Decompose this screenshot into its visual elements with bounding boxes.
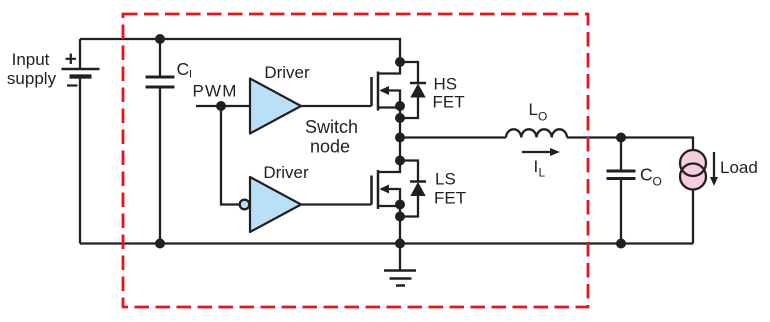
svg-text:FET: FET xyxy=(433,93,465,112)
label CO xyxy=(640,165,662,189)
node switch node junction xyxy=(395,133,405,143)
node HS diode anode junction xyxy=(395,113,405,123)
label Switch node xyxy=(305,117,358,157)
svg-text:Driver: Driver xyxy=(263,163,309,182)
label + (battery positive) xyxy=(66,54,77,65)
capacitor CO xyxy=(607,171,636,179)
svg-text:Driver: Driver xyxy=(264,63,310,82)
inverting bubble on driver 2 input xyxy=(240,200,250,210)
label CI xyxy=(177,59,193,81)
diode D1 HS body diode xyxy=(400,62,426,118)
load current source xyxy=(680,150,706,190)
svg-text:O: O xyxy=(653,175,662,189)
wire battery positive to top rail xyxy=(79,39,81,69)
label Input supply xyxy=(7,50,57,88)
svg-text:C: C xyxy=(640,165,653,185)
wire battery negative to bottom rail xyxy=(79,77,81,244)
svg-text:L: L xyxy=(539,166,546,180)
svg-text:O: O xyxy=(538,110,547,124)
wire CO bottom xyxy=(620,179,622,244)
op-amp driver U1 (high-side driver) xyxy=(250,79,301,134)
wire driver 1 output to HS gate xyxy=(301,105,372,107)
label Driver (top) xyxy=(264,63,310,82)
svg-text:Input: Input xyxy=(12,50,50,69)
wire PWM input stub to driver 1 xyxy=(196,105,250,107)
label PWM xyxy=(193,82,238,101)
svg-text:node: node xyxy=(310,137,350,157)
label LS FET xyxy=(434,170,466,208)
svg-text:I: I xyxy=(189,69,192,81)
diode D2 LS body diode xyxy=(400,161,426,217)
node CO bottom junction xyxy=(616,239,626,249)
capacitor CI xyxy=(146,77,175,87)
op-amp driver U2 (low-side driver) xyxy=(250,177,301,232)
node PWM junction xyxy=(216,101,226,111)
wire CI bottom xyxy=(159,87,161,244)
svg-text:FET: FET xyxy=(434,189,466,208)
transistor Q2 LS FET xyxy=(372,161,401,210)
battery V1 input supply xyxy=(62,69,100,77)
ground xyxy=(384,244,416,286)
node LS source junction xyxy=(395,200,405,210)
node HS drain junction xyxy=(395,57,405,67)
arrow load current xyxy=(710,152,718,186)
node CI bottom rail junction xyxy=(155,239,165,249)
node ground rail junction xyxy=(395,239,405,249)
wire top rail from battery to HS FET drain xyxy=(80,39,400,62)
label LO xyxy=(529,100,548,124)
label - (battery negative) xyxy=(67,84,78,86)
label HS FET xyxy=(433,75,465,112)
svg-text:LS: LS xyxy=(435,170,456,189)
label Driver (bottom) xyxy=(263,163,309,182)
wire load bottom to ground rail xyxy=(692,190,694,244)
node CO top junction xyxy=(616,133,626,143)
svg-text:Switch: Switch xyxy=(305,117,358,137)
wire CO node to load xyxy=(621,138,693,151)
svg-text:PWM: PWM xyxy=(193,82,238,101)
wire driver 2 output to LS gate xyxy=(301,203,372,205)
svg-text:HS: HS xyxy=(434,75,458,94)
svg-text:supply: supply xyxy=(7,69,57,88)
node LS drain junction xyxy=(395,156,405,166)
node CI top rail junction xyxy=(155,34,165,44)
wire PWM to driver 2 inverting input xyxy=(221,106,240,205)
node LS diode anode junction xyxy=(395,212,405,222)
svg-text:L: L xyxy=(529,100,538,119)
transistor Q1 HS FET xyxy=(372,62,401,111)
arrow IL inductor current xyxy=(522,148,560,156)
red boundary box (converter outline) xyxy=(123,14,588,307)
svg-text:Load: Load xyxy=(720,158,758,177)
wire bottom ground rail xyxy=(80,242,693,244)
wire CI top xyxy=(159,39,161,77)
wire CO top xyxy=(620,138,622,172)
wire HS source down through switch node to LS drain xyxy=(399,106,401,161)
label Load xyxy=(720,158,758,177)
label IL xyxy=(534,157,546,180)
svg-text:C: C xyxy=(177,59,190,79)
wire LS source to ground rail xyxy=(399,205,401,244)
wire switch node to inductor xyxy=(400,136,506,138)
node HS source junction xyxy=(395,101,405,111)
inductor LO xyxy=(506,129,567,137)
wire inductor to CO node xyxy=(567,136,621,138)
